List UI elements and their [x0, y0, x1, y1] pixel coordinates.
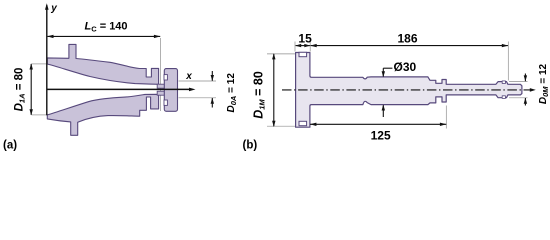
svg-text:x: x — [185, 71, 192, 82]
svg-text:D1M = 80: D1M = 80 — [252, 71, 267, 119]
svg-text:15: 15 — [298, 32, 312, 46]
svg-text:125: 125 — [371, 128, 391, 142]
svg-text:y: y — [50, 3, 57, 14]
svg-text:Ø30: Ø30 — [394, 60, 417, 74]
svg-text:LC = 140: LC = 140 — [85, 21, 128, 34]
svg-text:186: 186 — [398, 32, 418, 46]
svg-text:(b): (b) — [243, 139, 258, 151]
svg-text:D0A = 12: D0A = 12 — [226, 73, 238, 113]
svg-text:D0M = 12: D0M = 12 — [538, 63, 550, 104]
svg-text:D1A = 80: D1A = 80 — [14, 68, 27, 112]
svg-text:(a): (a) — [3, 139, 17, 151]
